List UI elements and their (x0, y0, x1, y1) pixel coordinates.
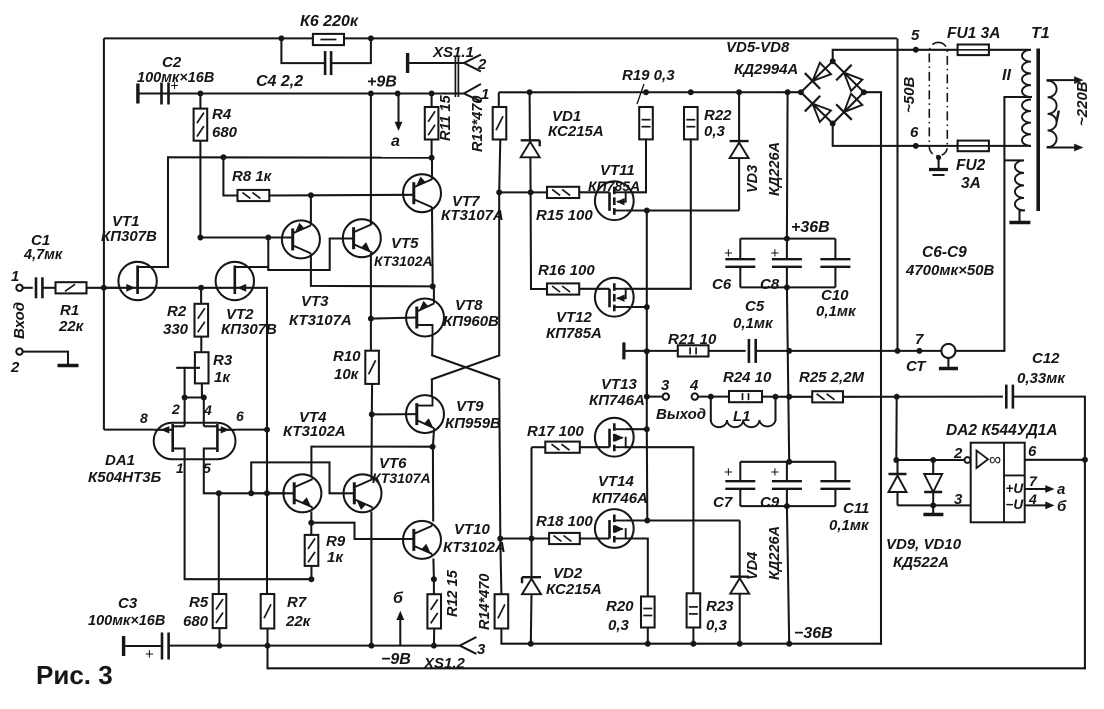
node R19 top (643, 89, 649, 95)
wire VT2 drain riser (235, 266, 268, 268)
resistor R10 10к (365, 351, 379, 384)
wire R18 line (500, 537, 549, 539)
node R5 rail (217, 643, 223, 649)
capacitor C2 100мк×16В (136, 84, 139, 104)
diode VD3 КД226А (738, 92, 740, 141)
transistor VT4 КТ3102А (283, 474, 321, 512)
svg-text:8: 8 (140, 410, 148, 426)
node R7 rail (265, 643, 271, 649)
svg-text:2: 2 (10, 359, 20, 376)
DA1 internals (171, 424, 174, 452)
svg-text:VT10: VT10 (454, 521, 491, 538)
wire FU1 to T1 (989, 49, 1027, 51)
svg-text:330: 330 (163, 321, 189, 338)
resistor R16 100 (547, 283, 579, 294)
svg-text:R9: R9 (326, 533, 346, 550)
node +9V R4 (197, 91, 203, 97)
pin 6 DA2 (1025, 459, 1085, 461)
svg-text:С2: С2 (162, 54, 182, 71)
ground input (58, 364, 79, 368)
node R9/y579 (308, 576, 314, 582)
resistor R5 680 (218, 493, 220, 594)
winding III screen (1015, 160, 1024, 210)
svg-text:L1: L1 (733, 408, 751, 425)
pin 3 chevron XS1.2 (460, 638, 476, 654)
resistor R14* 470 (495, 594, 509, 628)
resistor R21 10 (678, 345, 709, 356)
svg-text:∞: ∞ (989, 450, 1001, 469)
wire out4 to R24 (698, 396, 729, 398)
diode VD6 (805, 96, 833, 124)
wire VT5 base route (268, 239, 353, 271)
wire VT6 collector up (370, 478, 372, 480)
wire R7 bottom (266, 629, 268, 646)
svg-text:R11 15: R11 15 (438, 94, 454, 141)
svg-text:С5: С5 (745, 298, 765, 315)
node VD3 top (736, 89, 742, 95)
wire VT10 collector up (432, 447, 434, 522)
svg-text:КТ3102А: КТ3102А (443, 539, 506, 556)
svg-text:680: 680 (212, 124, 238, 141)
node gndbus rail (786, 641, 792, 647)
svg-text:0,3: 0,3 (608, 617, 630, 634)
wire C1 to R1 (42, 287, 55, 289)
node VD10 top (930, 457, 936, 463)
svg-text:КС215А: КС215А (546, 581, 602, 598)
wire +9V rail (140, 92, 464, 94)
svg-text:+: + (724, 245, 733, 262)
node K6 right (368, 35, 374, 41)
wire VT4/VT6 base tie (251, 462, 354, 493)
node R8 right (308, 192, 314, 198)
svg-text:VT9: VT9 (456, 398, 484, 415)
wire DA1 pin6 lead (236, 429, 268, 431)
node VT4e/R9 (308, 520, 314, 526)
wire +36V line (499, 91, 801, 93)
terminal 2 (16, 348, 22, 354)
wire VT14 drain line (626, 519, 740, 521)
capacitor C3 100мк×16В (122, 636, 125, 656)
svg-text:2: 2 (953, 445, 963, 462)
node 7 marker (916, 348, 922, 354)
diode VD10 (932, 460, 934, 474)
node R13/R15 (496, 189, 502, 195)
capacitor C6 (739, 239, 741, 260)
wire a-arrow (397, 94, 399, 126)
node DA1 pin6 / VT2 gate (264, 427, 270, 433)
op-amp DA1 К504НТ3Б (154, 423, 236, 460)
wire input line through VT1 VT2 (104, 287, 267, 289)
svg-text:КП307В: КП307В (221, 321, 277, 338)
svg-text:С11: С11 (843, 500, 869, 517)
svg-text:С6-С9: С6-С9 (922, 244, 967, 261)
svg-text:КС215А: КС215А (548, 123, 604, 140)
svg-text:R21 10: R21 10 (668, 331, 717, 348)
wire VT6 emitter down (370, 512, 372, 646)
svg-text:VT3: VT3 (301, 293, 329, 310)
capacitor C7 (739, 462, 741, 481)
wire VT9 emitter down (433, 431, 434, 447)
wire bus mid (646, 351, 648, 396)
node VD10 bottom (930, 502, 936, 508)
terminal bar XS1.1 pin2 wire (406, 53, 409, 73)
winding II upper (1022, 50, 1031, 97)
wire bridge bottom to 6 (833, 124, 958, 146)
node VT9 base tap (369, 411, 375, 417)
wire R19 to VT11 drain (626, 139, 646, 192)
wire DA1 pin8 (104, 429, 154, 431)
svg-text:3: 3 (954, 491, 963, 508)
svg-text:С4 2,2: С4 2,2 (256, 73, 303, 90)
svg-text:КП307В: КП307В (101, 228, 157, 245)
wire term2 to ground (23, 352, 68, 364)
svg-text:а: а (391, 133, 400, 150)
wire bridge right down -36V (864, 92, 881, 644)
svg-text:КТ3107А: КТ3107А (441, 207, 504, 224)
node R12 rail (431, 643, 437, 649)
svg-text:КП746А: КП746А (589, 392, 645, 409)
wire C3 left stub (125, 645, 162, 647)
svg-text:−9В: −9В (381, 651, 411, 668)
svg-text:КД226А: КД226А (767, 142, 783, 196)
svg-text:0,1мк: 0,1мк (733, 315, 774, 332)
svg-text:II: II (1002, 67, 1011, 84)
svg-text:VD4: VD4 (745, 552, 761, 580)
wire DA1 pin1 down (185, 449, 312, 580)
capacitor C11 0,1мк (834, 462, 836, 481)
wire VT8 gate (371, 318, 417, 319)
screen ground (1020, 210, 1025, 222)
svg-text:0,1мк: 0,1мк (829, 517, 870, 534)
svg-text:R20: R20 (606, 598, 634, 615)
transistor VT3 КТ3107А (282, 220, 320, 258)
svg-text:R18 100: R18 100 (536, 513, 593, 530)
wire R20 bottom (647, 628, 649, 644)
wire VT4 base (251, 492, 294, 494)
transistor VT9 КП959В (406, 395, 444, 433)
diode VD7 (836, 65, 864, 93)
transistor VT8 КП960В (406, 299, 444, 337)
svg-text:680: 680 (183, 613, 209, 630)
node bus out (644, 394, 650, 400)
node VT7 emitter / R11 (429, 155, 435, 161)
terminal 3 out (663, 393, 669, 399)
svg-text:FU1 3А: FU1 3А (947, 25, 1000, 42)
wire R15 to VT11 gate (579, 191, 609, 193)
wire R13 down to X (498, 192, 500, 355)
svg-text:4,7мк: 4,7мк (23, 247, 63, 263)
wire bottom return line (268, 646, 1085, 669)
diode VD4 КД226А (739, 521, 741, 577)
resistor R15 100 (547, 187, 579, 198)
node VT2 drain on base line (265, 235, 271, 241)
node gnd bus y351 (786, 348, 792, 354)
svg-text:С10: С10 (821, 287, 849, 304)
node R22 top (688, 89, 694, 95)
node VT12s bus (644, 304, 650, 310)
svg-text:С8: С8 (760, 276, 780, 293)
pin 1 chevron XS1.1 (464, 85, 480, 102)
wire left vertical rail (103, 38, 105, 429)
capacitor C10 0,1мк (834, 239, 836, 260)
svg-text:3: 3 (477, 641, 486, 658)
wire top-rail right corner down to CT node (896, 38, 898, 351)
wire R17 to VT13 gate (580, 446, 610, 448)
wire R22 to VT12 drain (626, 139, 691, 288)
node VD1/R15 (528, 189, 534, 195)
svg-text:4: 4 (689, 377, 699, 394)
wire VT8 drain up (433, 286, 435, 301)
svg-text:КТ3102А: КТ3102А (374, 253, 433, 269)
wire R10 vert to VT6 collector (370, 414, 372, 479)
svg-text:+U: +U (1006, 481, 1025, 496)
CT ground electrode (941, 344, 955, 358)
svg-text:К504НТ3Б: К504НТ3Б (88, 469, 162, 486)
node VT10e/R12 (431, 576, 437, 582)
node R5 top (216, 490, 222, 496)
svg-text:10к: 10к (334, 366, 360, 383)
svg-text:5: 5 (911, 27, 920, 44)
node VD2 rail (528, 641, 534, 647)
svg-text:С6: С6 (712, 276, 732, 293)
svg-text:VT11: VT11 (600, 162, 635, 179)
wire XS1.1 pin2 (408, 62, 464, 64)
wire VD1 node down to R16 (531, 192, 547, 289)
wire R3 to pin4 (201, 383, 203, 397)
node lower bottom bus (784, 503, 790, 509)
svg-text:С3: С3 (118, 595, 138, 612)
wire R21 line left (624, 350, 678, 352)
svg-text:Выход: Выход (656, 406, 706, 423)
node +36V drop (785, 89, 791, 95)
resistor R19 0,3 (639, 107, 653, 139)
wire VT7 emitter up (431, 158, 433, 180)
wire +36V vertical (786, 92, 789, 238)
wire R11 to VT7 node (431, 140, 433, 158)
svg-text:R5: R5 (189, 594, 209, 611)
svg-text:R17 100: R17 100 (527, 423, 584, 440)
wire R12 bottom (433, 629, 435, 646)
svg-text:R12 15: R12 15 (445, 569, 461, 617)
svg-text:0,1мк: 0,1мк (816, 303, 857, 320)
svg-text:С12: С12 (1032, 350, 1060, 367)
node R24 left (708, 394, 714, 400)
node servo tap (894, 394, 900, 400)
wire R16 to VT12 gate (579, 288, 609, 290)
node R8 left (220, 154, 226, 160)
transistor VT1 КП307В (118, 262, 156, 300)
node pin2 top (182, 395, 188, 401)
wire R21-C5 (709, 350, 746, 352)
capacitor C12 0,33мк (1005, 385, 1008, 409)
servo ground (932, 505, 934, 514)
capacitor C1 4,7мк (35, 277, 38, 298)
wire C12 right (1013, 397, 1085, 669)
pin 7 DA2 out a (1025, 488, 1046, 490)
svg-text:XS1.1: XS1.1 (432, 44, 474, 61)
resistor R17 100 (545, 442, 580, 453)
svg-text:+: + (771, 464, 780, 481)
wire output bus upper (646, 211, 648, 429)
node bridge left (798, 89, 804, 95)
wire R5 bottom (218, 628, 220, 645)
svg-text:3: 3 (661, 377, 670, 394)
svg-text:КТ3102А: КТ3102А (283, 423, 346, 440)
svg-text:~50В: ~50В (901, 77, 918, 113)
svg-text:R24 10: R24 10 (723, 369, 772, 386)
capacitor C8 (786, 239, 788, 260)
svg-text:VT5: VT5 (391, 235, 419, 252)
svg-text:СТ: СТ (906, 358, 927, 375)
wire VT7 base line (311, 194, 414, 197)
svg-text:R25 2,2М: R25 2,2М (799, 369, 865, 386)
inductor L1 (710, 397, 712, 420)
svg-text:КП746А: КП746А (592, 490, 648, 507)
svg-text:VD9, VD10: VD9, VD10 (886, 536, 962, 553)
capacitor C5 0,1мк (748, 339, 751, 363)
svg-text:R19 0,3: R19 0,3 (622, 67, 675, 84)
wire bridge top to 5 (833, 50, 958, 62)
node bridge top (830, 58, 836, 64)
transistor VT13 КП746А (595, 418, 634, 457)
wire FU2 to T1 (989, 145, 1031, 147)
resistor R22 0,3 (684, 107, 698, 139)
node VT14d bus (644, 518, 650, 524)
svg-text:Рис. 3: Рис. 3 (36, 660, 113, 690)
wire VT14 source to R20 (626, 539, 648, 597)
node input left rail (101, 285, 107, 291)
svg-text:КТ3107А: КТ3107А (372, 470, 431, 486)
wire input to C1 (23, 287, 33, 289)
svg-text:С9: С9 (760, 494, 780, 511)
wire VT2 gate to DA1 pin6 (266, 288, 268, 430)
wire VT10 emitter down (432, 559, 435, 580)
node C4/VT5 on +9V (368, 91, 374, 97)
wire R10 to VT9 base (371, 384, 373, 415)
resistor R4 680 (199, 94, 201, 109)
node top-rail drop CT (895, 348, 901, 354)
svg-text:7: 7 (915, 331, 924, 348)
svg-text:+: + (724, 464, 733, 481)
wire crossing X left-to-right (432, 355, 499, 379)
wire gnd bus to R25 (789, 396, 812, 398)
node bottom bus (784, 284, 790, 290)
wire R25 to C12 (843, 396, 1003, 398)
transistor VT11 КП785А (595, 181, 634, 220)
transistor VT7 КТ3107А (403, 174, 441, 212)
svg-text:б: б (1057, 498, 1067, 515)
connector XS1.1 double line (454, 57, 456, 97)
svg-text:0,3: 0,3 (706, 617, 728, 634)
wire bus to out3 (647, 396, 663, 398)
transistor VT2 КП307В (216, 262, 254, 300)
wire X down to R18 node (499, 379, 500, 538)
node bus y351 (644, 348, 650, 354)
shield ground (936, 155, 941, 160)
zener VD2 КС215А (530, 539, 532, 578)
op-amp DA2 К544УД1А (971, 443, 1025, 523)
wire gnd-bus lower to -36V (787, 506, 789, 644)
svg-text:3А: 3А (961, 175, 981, 192)
wire pin2-pin4 bridge (185, 396, 204, 398)
node R18/VD2 (529, 536, 535, 542)
svg-text:КД2994А: КД2994А (734, 61, 798, 78)
wire ground bus mid (787, 287, 789, 461)
svg-text:КП960В: КП960В (443, 313, 499, 330)
wire top signal-ground rail (104, 37, 897, 39)
wire X to VT9 collector (431, 379, 433, 395)
node R11 top (429, 91, 435, 97)
resistor R20 0,3 (641, 597, 655, 628)
wire R14 bottom to -36V (501, 629, 881, 644)
wire bridge outline (801, 61, 864, 123)
terminal 1 (16, 285, 22, 291)
svg-text:DA2 К544УД1А: DA2 К544УД1А (946, 422, 1058, 439)
wire R24 to gnd bus (762, 396, 789, 398)
wire pin3 line (898, 504, 971, 506)
node VT13d bus (644, 426, 650, 432)
wire VT12 source to bus (626, 306, 647, 308)
svg-text:КП785А: КП785А (546, 325, 602, 342)
wire C5 right (756, 350, 1005, 352)
node pin6 fb (1082, 457, 1088, 463)
node VD4 rail (737, 641, 743, 647)
node bridge bottom (830, 121, 836, 127)
shield dashed (929, 42, 947, 155)
svg-text:R1: R1 (60, 302, 79, 319)
wire VT3 collector (310, 195, 312, 224)
svg-text:FU2: FU2 (956, 157, 986, 174)
svg-text:VT12: VT12 (556, 309, 593, 326)
node R2 top (198, 285, 204, 291)
node bridge right (861, 89, 867, 95)
node a-arrow on +9V (395, 91, 401, 97)
node VD1 top (527, 89, 533, 95)
svg-text:1к: 1к (214, 369, 231, 386)
svg-text:100мк×16В: 100мк×16В (88, 613, 165, 629)
wire center tap (1004, 97, 1031, 351)
arrow b (399, 616, 401, 646)
node 6 (913, 143, 919, 149)
arrowhead a (395, 122, 403, 131)
wire VT8 source down (431, 334, 433, 355)
wire C4 loop left (281, 38, 324, 63)
node VT7c/VT3e/VT8d (430, 283, 436, 289)
svg-text:6: 6 (910, 124, 919, 141)
resistor R3 1к (195, 352, 209, 383)
svg-text:4: 4 (203, 402, 212, 418)
node VT8/R18 node (497, 536, 503, 542)
svg-text:КД226А: КД226А (767, 526, 783, 580)
wire VT4e to VT10 base (311, 523, 414, 539)
svg-text:1: 1 (11, 268, 19, 285)
wire R1 to VT1 (87, 287, 120, 289)
wire R18 to VT14 gate (580, 537, 610, 539)
svg-text:+36В: +36В (791, 219, 830, 236)
svg-text:К6 220к: К6 220к (300, 13, 359, 30)
svg-text:0,3: 0,3 (704, 123, 726, 140)
wire primary bottom arrow (1048, 146, 1076, 148)
svg-text:1: 1 (176, 460, 184, 476)
svg-text:~220В: ~220В (1074, 81, 1091, 126)
wire crossing X right-to-left (432, 355, 499, 379)
svg-text:С7: С7 (713, 494, 733, 511)
svg-text:2: 2 (477, 56, 487, 73)
wire VT9 base (372, 413, 417, 415)
wire y157 line (168, 156, 432, 158)
svg-text:2: 2 (171, 401, 180, 417)
svg-text:DA1: DA1 (105, 452, 135, 469)
